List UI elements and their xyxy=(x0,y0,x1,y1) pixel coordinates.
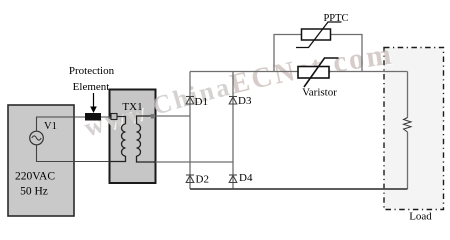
svg-text:D1: D1 xyxy=(195,96,208,108)
svg-text:D2: D2 xyxy=(196,174,209,186)
svg-text:50 Hz: 50 Hz xyxy=(20,186,48,198)
svg-text:220VAC: 220VAC xyxy=(15,171,55,183)
svg-text:V1: V1 xyxy=(44,121,57,132)
svg-text:Load: Load xyxy=(409,211,432,223)
svg-text:PPTC: PPTC xyxy=(323,13,348,24)
svg-text:TX1: TX1 xyxy=(122,101,142,113)
svg-text:Protection: Protection xyxy=(69,65,115,77)
svg-text:Varistor: Varistor xyxy=(302,87,337,99)
svg-text:D4: D4 xyxy=(239,172,253,184)
svg-text:D3: D3 xyxy=(238,95,252,107)
svg-text:Element: Element xyxy=(73,81,110,93)
